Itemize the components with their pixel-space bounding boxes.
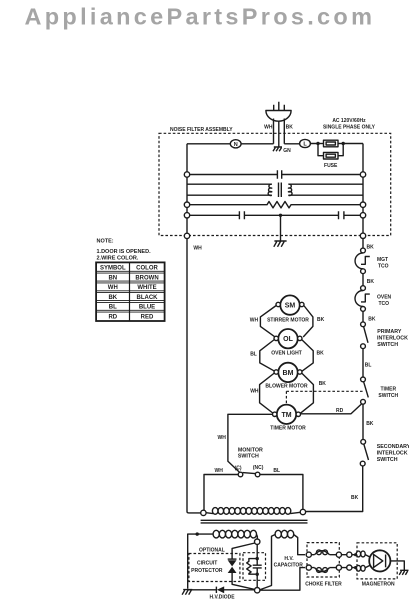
wire BM to TM left (260, 373, 275, 414)
svg-text:BROWN: BROWN (135, 275, 158, 281)
svg-text:SINGLE PHASE ONLY: SINGLE PHASE ONLY (323, 125, 376, 131)
svg-text:SYMBOL: SYMBOL (100, 266, 126, 272)
svg-text:WH: WH (108, 285, 118, 291)
wire to chassis ground (280, 215, 282, 242)
chassis ground magnetron (399, 570, 408, 575)
fuse F (lower parallel) (318, 144, 343, 160)
svg-text:BL: BL (109, 305, 117, 311)
svg-text:BK: BK (366, 421, 374, 427)
junction (316, 142, 319, 145)
junction (279, 214, 282, 217)
blower motor BM (265, 363, 308, 390)
svg-text:NOTE:: NOTE: (97, 239, 114, 245)
oven light OL (271, 329, 302, 357)
svg-text:SM: SM (285, 303, 296, 310)
circuit protector branch (228, 543, 255, 589)
svg-text:AC 120V/60Hz: AC 120V/60Hz (332, 118, 366, 124)
node B junction circle (255, 588, 260, 593)
transformer core (201, 520, 308, 523)
node N (230, 140, 241, 148)
thermal cutout MGT TCO (355, 248, 389, 274)
svg-text:OVEN LIGHT: OVEN LIGHT (271, 351, 302, 357)
svg-text:TCO: TCO (379, 301, 390, 307)
svg-text:INTERLOCK: INTERLOCK (377, 336, 408, 342)
svg-text:SWITCH: SWITCH (377, 457, 398, 463)
mechanical link dashed (286, 391, 364, 405)
wire OL to BM left (260, 340, 275, 372)
AC plug (266, 102, 291, 121)
svg-text:BN: BN (108, 275, 117, 281)
node L (300, 139, 311, 147)
wire left rail (187, 144, 201, 513)
svg-text:1.DOOR IS OPENED.: 1.DOOR IS OPENED. (97, 249, 152, 255)
svg-text:PROTECTOR: PROTECTOR (191, 568, 223, 574)
chassis ground bottom left (182, 590, 192, 595)
line D resistor (184, 202, 365, 208)
power transformer filament secondary (275, 530, 281, 538)
svg-text:TCO: TCO (378, 264, 389, 270)
svg-text:RD: RD (108, 314, 117, 320)
svg-text:WH: WH (215, 468, 224, 474)
wire color table (96, 262, 165, 321)
dashed box circuit protector (189, 554, 240, 582)
svg-text:BM: BM (283, 370, 294, 377)
wire bottom rail (188, 568, 305, 591)
note text (97, 239, 152, 262)
svg-text:TIMER: TIMER (381, 386, 397, 392)
secondary interlock switch (360, 439, 409, 466)
thermal cutout OVEN TCO (355, 286, 392, 312)
svg-text:2.WIRE COLOR.: 2.WIRE COLOR. (97, 256, 139, 262)
capacitor HV with bleed resistor (247, 544, 262, 587)
svg-text:OPTIONAL: OPTIONAL (199, 548, 225, 554)
svg-text:(C): (C) (235, 466, 242, 472)
diode HV (bottom rail) (210, 586, 236, 600)
svg-text:SWITCH: SWITCH (238, 454, 259, 460)
svg-text:CAPACITOR: CAPACITOR (274, 562, 304, 568)
svg-text:SWITCH: SWITCH (378, 393, 398, 399)
svg-text:TIMER MOTOR: TIMER MOTOR (270, 425, 306, 431)
svg-text:NOISE FILTER ASSEMBLY: NOISE FILTER ASSEMBLY (170, 127, 233, 133)
wire (362, 274, 364, 286)
svg-text:(NC): (NC) (253, 465, 264, 471)
wire monitor line right (260, 475, 303, 510)
svg-text:BLOWER MOTOR: BLOWER MOTOR (265, 383, 308, 389)
svg-text:BK: BK (108, 295, 117, 301)
ground GN (273, 147, 291, 154)
choke filter (305, 543, 342, 588)
line B filter capacitor (184, 170, 365, 178)
svg-text:GN: GN (283, 148, 291, 154)
wire monitor line left (204, 475, 238, 511)
wire timer to RD line (300, 404, 362, 414)
svg-text:BK: BK (317, 317, 325, 323)
timer switch (361, 377, 399, 404)
power transformer primary (201, 508, 306, 516)
svg-text:WH: WH (218, 435, 227, 441)
svg-text:CIRCUIT: CIRCUIT (197, 561, 217, 567)
wire (362, 311, 364, 322)
svg-text:STIRRER MOTOR: STIRRER MOTOR (267, 317, 309, 323)
wire to right rail (343, 143, 363, 145)
wire BK plug lead (283, 119, 285, 144)
wire OL to BM right (302, 340, 314, 372)
fuse F (upper) (318, 140, 343, 147)
svg-text:BK: BK (317, 351, 325, 357)
svg-text:N: N (234, 142, 238, 148)
timer motor TM (270, 405, 306, 432)
wire BM to TM right (300, 373, 313, 414)
wire GN plug lead (278, 121, 280, 146)
svg-text:WH: WH (193, 246, 202, 252)
svg-text:MAGNETRON: MAGNETRON (362, 582, 395, 588)
wires choke to magnetron (342, 555, 356, 568)
svg-text:BK: BK (319, 381, 327, 387)
dashed box HV capacitor (243, 553, 266, 581)
wire right rail upper (362, 144, 364, 248)
svg-text:MGT: MGT (377, 257, 388, 263)
svg-text:SECONDARY: SECONDARY (377, 444, 409, 450)
svg-text:OL: OL (283, 336, 293, 343)
magnetron (354, 543, 404, 588)
svg-text:BL: BL (365, 363, 372, 369)
svg-text:BK: BK (351, 495, 359, 501)
svg-text:SWITCH: SWITCH (377, 342, 398, 348)
svg-text:BL: BL (273, 468, 280, 474)
node A junction circle (255, 539, 260, 544)
svg-text:RD: RD (336, 408, 344, 414)
wire SM to OL left (260, 306, 276, 337)
svg-text:BK: BK (368, 317, 376, 323)
svg-text:BK: BK (367, 245, 375, 251)
svg-text:H.V.: H.V. (284, 556, 294, 562)
svg-text:COLOR: COLOR (136, 266, 158, 272)
wire SM to OL right (303, 306, 313, 338)
svg-text:BLUE: BLUE (139, 305, 155, 311)
svg-text:BK: BK (367, 279, 375, 285)
svg-text:RED: RED (141, 314, 154, 320)
svg-text:BK: BK (286, 124, 294, 130)
wire TM line left to monitor switch (228, 414, 273, 472)
svg-text:PRIMARY: PRIMARY (377, 329, 402, 335)
line E capacitors (184, 211, 365, 219)
svg-text:TM: TM (281, 412, 291, 419)
svg-text:WHITE: WHITE (137, 285, 156, 291)
wire (362, 404, 364, 439)
svg-text:BLACK: BLACK (137, 295, 159, 301)
svg-text:WH: WH (250, 317, 259, 323)
svg-text:BL: BL (250, 352, 257, 358)
svg-text:AppliancePartsPros.com: AppliancePartsPros.com (25, 4, 376, 30)
wire line A left (187, 143, 274, 145)
chassis ground (274, 241, 287, 247)
svg-text:INTERLOCK: INTERLOCK (377, 451, 408, 457)
svg-text:CHOKE FILTER: CHOKE FILTER (305, 582, 342, 588)
primary interlock switch (361, 322, 408, 349)
svg-text:WH: WH (264, 124, 273, 130)
wire (362, 349, 364, 377)
power transformer HV secondary (188, 530, 258, 589)
stirrer motor SM (267, 295, 309, 323)
noise filter assembly dashed enclosure (159, 133, 391, 235)
wire WH plug lead (273, 119, 275, 144)
connector circles on enclosure bottom (184, 233, 189, 238)
common-mode choke transformer (187, 183, 363, 198)
svg-text:MONITOR: MONITOR (238, 447, 263, 453)
wire to transformer (305, 466, 362, 512)
svg-text:WH: WH (250, 389, 259, 395)
svg-text:OVEN: OVEN (377, 295, 392, 301)
monitor switch (235, 447, 264, 477)
svg-text:H.V.DIODE: H.V.DIODE (210, 595, 236, 600)
wire line A right (284, 143, 318, 145)
junction (342, 142, 345, 145)
svg-text:FUSE: FUSE (324, 163, 338, 169)
